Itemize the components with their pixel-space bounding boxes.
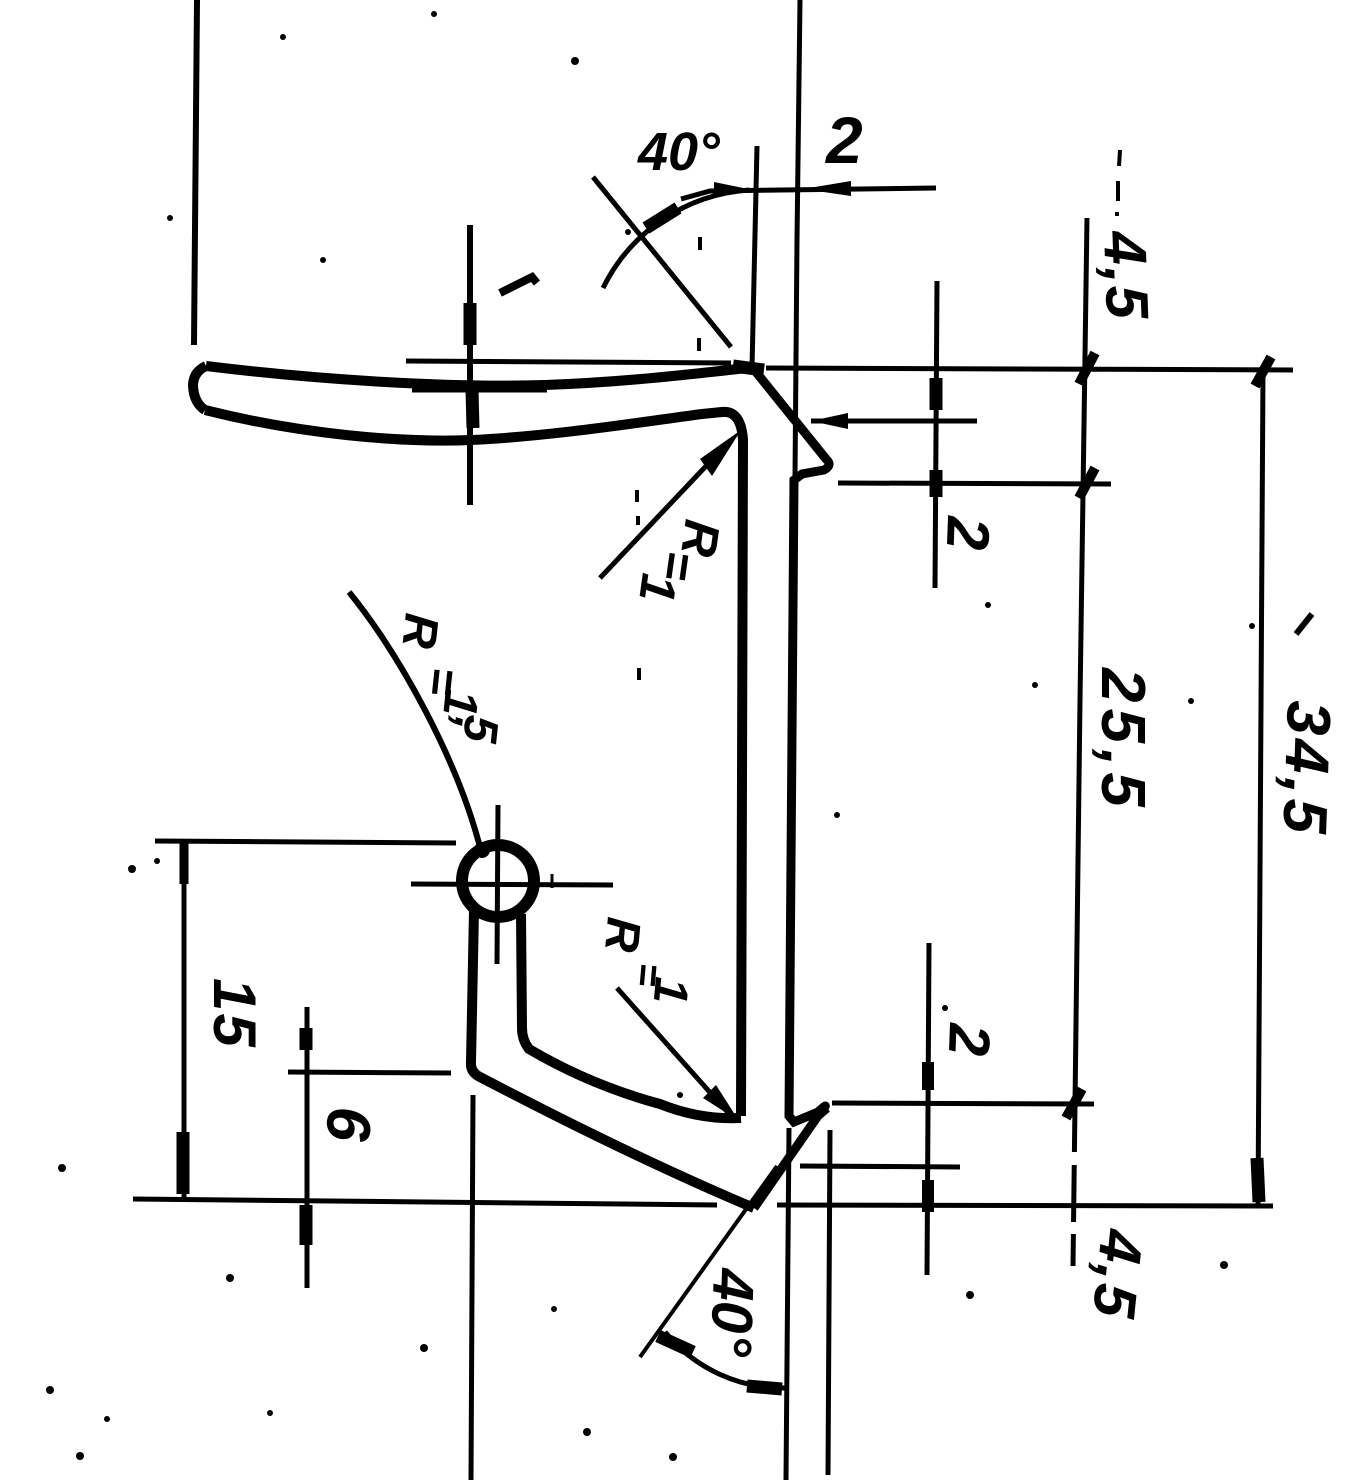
R=1,5 leader	[349, 592, 481, 851]
junction ink blob	[733, 366, 764, 370]
svg-text:34,5: 34,5	[1269, 700, 1343, 839]
dim vertical 2-bottom x929	[927, 943, 929, 1275]
extension x829 to bottom	[828, 1130, 830, 1475]
svg-text:2: 2	[934, 515, 1002, 552]
extension line x756 above junction	[752, 146, 757, 368]
arrow left-pointing at x803	[803, 181, 851, 196]
PROFILE: flange top edge	[206, 366, 748, 386]
white gaps to make lower dim line dashed	[1065, 166, 1127, 1234]
ext line y1104 right of barb	[832, 1103, 1094, 1104]
bottom 40 leader (cut edge extension)	[640, 1166, 777, 1357]
extension line top-left vertical	[194, 0, 197, 345]
dim vertical 15 x184	[182, 839, 187, 1198]
dim ref line 6 y1072	[288, 1072, 451, 1073]
PROFILE: flange left cap	[193, 366, 206, 410]
dim vertical 4,5/25,5 x1086-1073	[1073, 218, 1087, 1266]
svg-text:1: 1	[643, 975, 698, 1006]
PROFILE: flange bottom edge + wall left edge	[205, 410, 743, 1116]
dash-dot marks x1119 top	[1119, 150, 1120, 166]
dash marks x638	[635, 490, 639, 502]
40deg arc top	[603, 190, 749, 288]
svg-text:25,5: 25,5	[1088, 667, 1157, 813]
bottom 40 arc	[665, 1332, 786, 1388]
svg-text:4,5: 4,5	[1080, 1226, 1156, 1323]
extension line for dim 1 (x470)	[467, 225, 473, 505]
arrow right-pointing at x753	[714, 182, 753, 197]
svg-text:2: 2	[936, 1022, 1002, 1058]
PROFILE: bulb circle	[462, 845, 534, 917]
svg-text:4,5: 4,5	[1091, 229, 1161, 322]
40deg leader diagonal top	[593, 177, 731, 347]
tick at y483	[1079, 468, 1095, 498]
dim vertical 6 x307	[305, 1007, 310, 1288]
svg-text:15: 15	[201, 978, 268, 1049]
bottom reference line y1204	[133, 1199, 717, 1205]
arrow at left end y422	[811, 413, 848, 429]
tick at y368	[1079, 353, 1095, 384]
arrow blob dim1 lower	[472, 390, 473, 428]
bulb crosshair	[411, 884, 613, 885]
ext line y1166	[800, 1166, 960, 1167]
dimension line 1 lower (y388)	[412, 386, 547, 393]
PROFILE: arm top edge + stem right edge	[521, 914, 741, 1118]
svg-text:6: 6	[313, 1106, 383, 1143]
dimension line 1 upper (y360)	[406, 361, 731, 363]
barb tip blob bottom	[812, 1107, 826, 1119]
svg-text:2: 2	[824, 103, 863, 177]
dash marks x700	[698, 237, 702, 250]
arrow blob dim1 upper	[464, 303, 477, 345]
tick at y1104	[1066, 1089, 1082, 1118]
extension line x800 from top edge	[795, 0, 800, 476]
svg-text:40°: 40°	[637, 122, 720, 182]
dim line y483	[838, 483, 1111, 484]
dim line y422 right of barb	[811, 419, 977, 424]
PROFILE: cut edge + bottom barb + wall right edge + top barb	[754, 372, 829, 1208]
numeral 1 small (dim 1)	[500, 277, 537, 293]
svg-text:40°: 40°	[698, 1267, 766, 1359]
long extension x472 bottom-left	[471, 1095, 473, 1480]
R=1 bottom leader	[617, 988, 731, 1116]
PROFILE: stem left edge + arm bottom edge	[471, 910, 754, 1208]
comma mark right	[1296, 614, 1312, 634]
dim vertical 34,5 x1262	[1258, 371, 1263, 1206]
arc arrowhead thick	[646, 208, 678, 228]
bulb top tangent line y842	[155, 841, 456, 843]
svg-text:R: R	[391, 611, 447, 651]
dimension line 2 top (y189)	[681, 188, 936, 199]
svg-text:R: R	[594, 915, 650, 954]
R=1 top leader	[600, 445, 726, 578]
top-right horizontal reference y370	[766, 368, 1293, 370]
dim vertical 2-right x936	[935, 281, 937, 588]
extension x787 to bottom	[786, 1128, 789, 1480]
